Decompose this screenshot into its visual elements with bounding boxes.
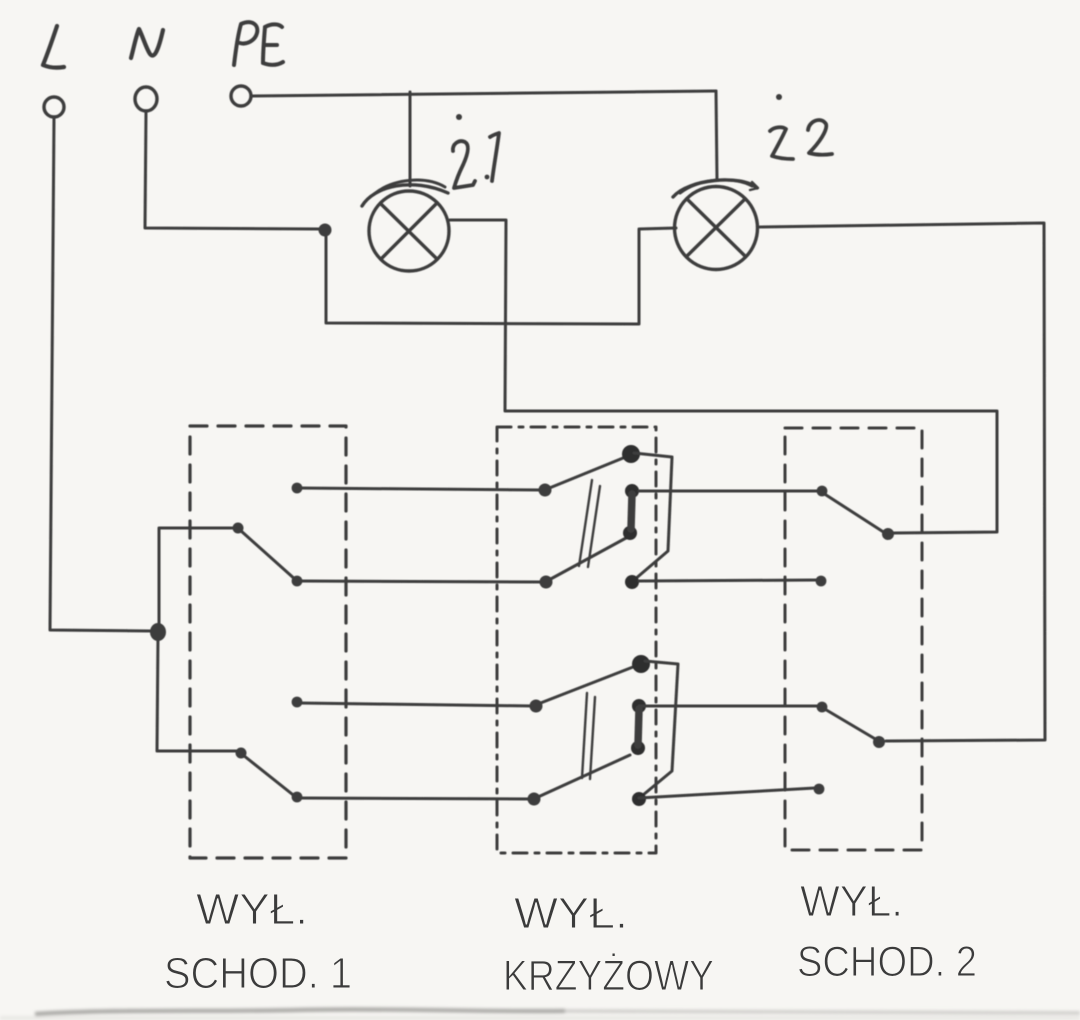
S2a coupling slashes [579,480,600,567]
S2b lever 1 [538,667,633,704]
scan smudge bottom [0,1009,1080,1020]
wire S2b bottom to S3b down-throw [639,788,815,798]
S2b mid-lower dot [631,741,645,755]
terminal circle N [135,87,157,111]
svg-text:WYŁ.: WYŁ. [196,885,308,934]
switch S3a down-throw dot [816,576,827,587]
S2a lever 1 [547,456,628,489]
cross switch S2 lower unit [528,655,679,806]
S2b mid link bar [638,709,639,745]
S2b left-top dot [530,700,543,713]
switch box WYL.SCHOD.1 [190,426,346,858]
wire node A to lamp 22 left [326,228,676,324]
wire S2b mid to S3b up-throw [639,705,818,708]
svg-text:SCHOD. 2: SCHOD. 2 [797,938,977,986]
S2a mid link bar [631,494,632,529]
switch S1b common dot [236,748,247,759]
S2b bottom dot [632,792,646,806]
switch S3a common dot [882,528,894,540]
lamp E2 label 22 [770,94,832,159]
S2b bypass bracket [643,661,678,795]
terminal label L [43,26,64,68]
wire L down [50,117,152,631]
lamp E2 (22) [673,180,758,270]
S2a bypass bracket [634,453,672,580]
node B junction dot [150,623,166,641]
wire PE bus to lamps [252,91,716,96]
svg-text:KRZYŻOWY: KRZYŻOWY [503,952,714,1000]
wire S2a mid to S3a up-throw [639,490,818,493]
S2a bottom dot [625,575,639,589]
switch S3a lever [823,493,885,533]
switch box WYL.SCHOD.2 [785,428,922,850]
switch S1a lever [240,530,297,581]
svg-text:SCHOD. 1: SCHOD. 1 [164,949,352,998]
wire lamp 22 right to switch S3b common [760,223,1045,741]
S2a top dot [622,445,640,463]
S2a lever 2 [547,538,626,581]
terminal label N [131,29,163,58]
lamp E1 label 21 [453,114,499,188]
wire S1b up-throw to cross switch [299,703,535,706]
switch S1a throw-down dot [292,576,303,587]
switch S1b throw-up dot [292,697,303,708]
node A junction dot [319,224,332,237]
svg-text:WYŁ.: WYŁ. [800,877,903,926]
switch box WYL.KRZYZOWY [497,427,656,853]
cross switch S2 upper unit [539,445,673,589]
switch S1b throw-down dot [292,792,303,803]
terminal circle PE [231,86,251,106]
wire S1a up-throw to cross switch [298,488,544,490]
switch S3b up-throw dot [817,702,828,713]
S2b lever 2 [538,755,630,797]
svg-text:WYŁ.: WYŁ. [514,889,628,938]
switch S3b lever [823,708,877,740]
S2b mid-upper dot [632,699,646,713]
lamp E1 (21) [362,180,449,271]
wire S1b down-throw to cross switch [298,798,533,799]
wire drop to lamp 21 [409,92,412,186]
wire lamp 21 right to switch S3a common [450,220,997,533]
S2b coupling slashes [582,693,595,779]
switch S3a up-throw dot [817,486,828,497]
wire node B to S1b common [157,635,236,751]
terminal label PE [234,22,283,65]
S2a left-top dot [539,484,552,497]
switch S1b lever [243,755,297,798]
wire node B to S1a common [159,528,232,629]
wire drop to lamp 22 [716,91,717,180]
switch S3b down-throw dot [814,784,825,795]
S2a left-bottom dot [540,576,553,589]
S2a mid-upper dot [625,484,639,498]
wire S1a down-throw to cross switch [298,581,546,582]
switch S3b common dot [873,736,885,748]
switch S1a throw-up dot [292,483,303,494]
S2a mid-lower dot [623,526,637,540]
wire N to node A [145,111,320,229]
S2b left-bottom dot [528,793,541,806]
terminal circle L [44,97,64,117]
wire S2a bottom to S3a down-throw [639,580,818,581]
switch S1a common dot [233,523,244,534]
S2b top dot [632,655,650,673]
